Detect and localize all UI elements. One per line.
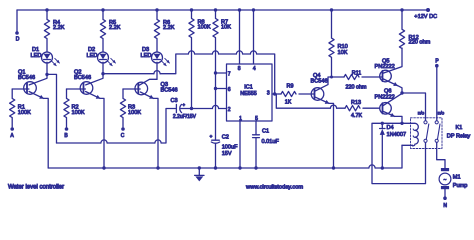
LED D3 (152, 52, 170, 66)
resistor R10 (329, 8, 334, 77)
node pin3 junction (273, 92, 276, 95)
wire Q2 collector to pin3 segment a (103, 73, 154, 75)
wire bus segment b (107, 142, 155, 144)
wire hop over pin4 column (250, 51, 256, 54)
wire hop R13 over Q4 emitter (330, 105, 336, 108)
wire Q6 collector (383, 93, 402, 106)
svg-text:R11: R11 (352, 70, 362, 76)
label C1 (262, 129, 280, 145)
LED D2 (98, 52, 116, 66)
wire Q1 base (12, 88, 29, 90)
wire Q4 emitter (315, 97, 334, 168)
wire Q2 collector to pin3 segment b (160, 54, 188, 74)
wire Q1 emitter (29, 92, 48, 169)
node P (435, 64, 439, 68)
switch contact left (424, 121, 429, 143)
svg-text:LED: LED (141, 53, 152, 59)
svg-text:2: 2 (228, 107, 231, 113)
wire hop over R8 column (188, 51, 194, 54)
node ground D4 (381, 166, 384, 169)
label +12V DC (414, 14, 437, 20)
pin 1 label (239, 116, 242, 122)
wire ground rail b (375, 145, 402, 168)
wire hop over pin8 column (236, 51, 242, 54)
label D2 (87, 47, 98, 59)
wire bus hop over Q2 emitter (101, 140, 107, 143)
resistor R9 (279, 91, 315, 96)
wire Q3 emitter (140, 92, 158, 168)
wire node to relay return (372, 123, 426, 183)
wire +12V top rail (17, 9, 428, 11)
label Q6 (375, 89, 395, 101)
label A (10, 133, 14, 139)
svg-text:2.2K: 2.2K (109, 25, 121, 31)
wire pin6 to C2 (215, 89, 217, 141)
svg-text:2.2K: 2.2K (53, 25, 65, 31)
node C (121, 127, 125, 131)
label R5 value (109, 20, 121, 31)
svg-text:+12V DC: +12V DC (414, 14, 437, 20)
svg-text:LED: LED (87, 53, 98, 59)
wire hop pin2 over R7 column (212, 105, 218, 108)
svg-text:7: 7 (228, 71, 231, 77)
switch contact right (435, 121, 440, 143)
node ground Q4 emitter (332, 166, 335, 169)
svg-text:15V: 15V (222, 151, 232, 157)
wire pin3 to R13 (275, 94, 331, 108)
node B (65, 127, 69, 131)
resistor R13 (337, 106, 379, 111)
pin 4 label (253, 66, 256, 72)
label R8 value (198, 20, 211, 31)
svg-text:D4: D4 (387, 125, 394, 131)
wire pin 4 supply (252, 8, 255, 64)
svg-text:+: + (210, 134, 213, 139)
wire bus segment c (161, 109, 176, 144)
svg-text:100K: 100K (18, 110, 31, 116)
node A (10, 127, 14, 131)
node Q1 collector (45, 73, 48, 76)
label P (435, 58, 439, 64)
svg-text:K1: K1 (456, 125, 463, 131)
label Q3 (161, 82, 178, 94)
label C3 (171, 98, 197, 120)
capacitor C1 (253, 135, 260, 138)
transistor Q4 (311, 88, 324, 101)
node ground symbol junction (198, 166, 201, 169)
node Q5 emitter junction (400, 91, 403, 94)
label K1 (447, 125, 471, 140)
node ground C2 (214, 166, 217, 169)
svg-text:~: ~ (444, 177, 447, 183)
label Q2 (74, 70, 91, 82)
wire collector branch right (47, 74, 57, 143)
svg-text:PN2222: PN2222 (375, 64, 395, 70)
label N (443, 203, 447, 209)
svg-text:4: 4 (253, 66, 256, 72)
transistor Q2 (80, 82, 93, 95)
wire to relay common (402, 93, 426, 121)
wire pin 6 (216, 88, 227, 90)
label D4 (387, 125, 407, 138)
wire Q5 collector (383, 48, 402, 73)
transistor Q5 (380, 70, 392, 82)
op-amp U1 NE555 box (227, 64, 273, 121)
resistor R7 (213, 8, 218, 73)
capacitor C3 (176, 102, 185, 112)
wire hop over D3 column (154, 71, 160, 74)
label M1 (453, 175, 468, 190)
wire Q1 collector (29, 74, 47, 85)
wire R7 to pin6 (215, 73, 217, 89)
svg-text:1N4007: 1N4007 (387, 132, 407, 138)
wire Q2 collector to pin3 segment f (257, 54, 275, 94)
wire pin 1 ground (239, 121, 241, 168)
wire motor to N (444, 189, 446, 197)
svg-text:100K: 100K (198, 25, 211, 31)
wire pin 7 (216, 72, 227, 74)
svg-text:www.circuitstoday.com: www.circuitstoday.com (245, 184, 303, 190)
node R8 junction (190, 107, 193, 110)
svg-text:2.2K: 2.2K (163, 25, 175, 31)
node Q6 emitter junction (400, 122, 403, 125)
diode D4 (380, 123, 385, 168)
svg-text:C: C (121, 133, 125, 139)
svg-text:4.7K: 4.7K (351, 113, 362, 119)
wire bus segment a (57, 142, 101, 144)
LED D1 (42, 52, 60, 66)
wire C1 to ground (255, 138, 257, 168)
label R12 value (409, 35, 431, 46)
wire coil top (402, 122, 415, 124)
resistor R11 (332, 74, 382, 79)
label D (16, 37, 20, 43)
resistor R12 (399, 8, 404, 48)
wire D2 cathode (102, 62, 104, 73)
resistor R2 (64, 89, 69, 127)
label R1 value (18, 104, 31, 116)
wire Q2 collector (86, 74, 103, 85)
label D3 (141, 47, 152, 59)
svg-text:2.2uF/15V: 2.2uF/15V (173, 114, 197, 120)
svg-text:BC546: BC546 (311, 79, 328, 85)
label D1 (31, 47, 42, 59)
wire Q4 collector (315, 77, 332, 91)
label R11 value (346, 70, 367, 90)
label Q5 (375, 59, 395, 71)
pin 8 label (238, 66, 241, 72)
label title (8, 184, 64, 190)
svg-text:BC546: BC546 (18, 75, 35, 81)
svg-text:n/o: n/o (438, 110, 445, 115)
svg-text:D: D (16, 37, 20, 43)
label R7 value (221, 20, 231, 31)
pin 6 label (228, 87, 231, 93)
resistor R8 (189, 8, 194, 108)
node D (15, 31, 19, 35)
wire coil bottom (402, 144, 413, 146)
wire Q6 emitter (383, 111, 402, 123)
svg-text:10K: 10K (338, 50, 348, 56)
wire C3 to pin2 c (219, 108, 227, 110)
svg-text:BC546: BC546 (74, 75, 91, 81)
label C2 (222, 135, 238, 157)
label R6 value (163, 20, 175, 31)
node ground stage2 (102, 166, 105, 169)
svg-text:3: 3 (267, 91, 270, 97)
capacitor C2 (210, 134, 220, 143)
svg-text:R9: R9 (287, 84, 294, 90)
motor M1 (439, 168, 451, 189)
transistor Q1 (24, 82, 37, 95)
svg-text:Pump: Pump (453, 183, 468, 189)
svg-text:100uF: 100uF (222, 145, 238, 151)
label Q1 (18, 70, 35, 82)
svg-text:1K: 1K (285, 99, 292, 105)
svg-text:N: N (443, 203, 447, 209)
wire Q3 collector (139, 79, 157, 85)
svg-text:M1: M1 (453, 175, 461, 181)
wire P to contact (436, 66, 438, 121)
ground symbol (195, 168, 204, 181)
label website (245, 184, 303, 190)
wire Q2 collector to pin3 segment e (243, 53, 251, 55)
wire probe D drop (16, 10, 18, 33)
node Q2 collector (101, 72, 104, 75)
svg-text:IC1: IC1 (244, 84, 252, 90)
svg-text:0.01uF: 0.01uF (262, 139, 280, 145)
node pin6 junction (214, 87, 217, 90)
node pin7 junction (214, 71, 217, 74)
label R9 value (285, 84, 294, 106)
pin 3 label (267, 91, 270, 97)
relay K1 box (411, 118, 443, 149)
svg-text:8: 8 (238, 66, 241, 72)
label R13 value (351, 100, 362, 119)
transistor Q6 (380, 103, 392, 115)
svg-text:DP Relay: DP Relay (447, 134, 471, 140)
svg-text:C2: C2 (222, 135, 229, 141)
wire node to D4 (382, 122, 402, 124)
resistor R3 (120, 89, 125, 127)
wire D1 cathode (46, 62, 48, 74)
node N (443, 196, 447, 200)
wire pin 5 to C1 (255, 121, 257, 135)
wire C2 to ground (215, 143, 217, 168)
wire pin 8 supply (238, 8, 241, 64)
label Q4 (311, 73, 328, 84)
wire contact to motor (437, 142, 445, 168)
svg-text:BC546: BC546 (161, 88, 178, 94)
label B (64, 133, 68, 139)
wire Q3 base (123, 88, 140, 90)
svg-text:100K: 100K (72, 110, 85, 116)
svg-text:C1: C1 (262, 129, 269, 135)
label R4 value (53, 20, 65, 31)
svg-text:NE555: NE555 (240, 91, 256, 97)
wire Q2 collector to pin3 segment d (219, 53, 237, 55)
wire Q2 base (67, 88, 86, 90)
label n/o right (438, 110, 445, 115)
wire bus hop over Q3 emitter (155, 140, 161, 143)
pin 2 label (228, 107, 231, 113)
inductor K1 coil (413, 123, 419, 145)
label n/o left (418, 110, 425, 115)
label R3 value (128, 104, 141, 116)
node R10 junction (330, 76, 333, 79)
resistor R5 (100, 8, 105, 52)
node D4 anode junction (381, 122, 384, 125)
wire ground rail hop (369, 165, 375, 168)
label R2 value (72, 104, 85, 116)
node ground C1 (254, 166, 257, 169)
svg-text:C3: C3 (171, 98, 178, 104)
svg-text:6: 6 (228, 87, 231, 93)
node ground stage3 (156, 166, 159, 169)
wire Q2 collector to pin3 segment c (195, 53, 213, 55)
resistor R4 (44, 8, 49, 52)
label R10 value (338, 44, 348, 56)
pin 5 label (255, 116, 258, 122)
svg-text:n/o: n/o (418, 110, 425, 115)
svg-text:+: + (183, 102, 186, 107)
transistor Q3 (135, 82, 148, 95)
svg-text:R13: R13 (351, 100, 361, 106)
svg-text:100K: 100K (128, 110, 141, 116)
resistor R1 (10, 89, 15, 127)
svg-text:D3: D3 (142, 47, 149, 53)
wire C3 to pin2 a (181, 108, 192, 110)
wire pin 3 (272, 93, 279, 95)
svg-text:LED: LED (31, 53, 42, 59)
svg-text:220 ohm: 220 ohm (409, 40, 431, 46)
wire Q5 emitter (383, 79, 402, 93)
wire Q2 emitter (86, 92, 104, 169)
svg-text:10K: 10K (221, 25, 231, 31)
resistor R6 (154, 8, 159, 52)
wire D3 cathode (156, 62, 158, 79)
wire ground rail a (48, 167, 369, 169)
label IC1 NE555 (240, 84, 256, 97)
node ground pin1 (238, 166, 241, 169)
wire C3 to pin2 b (192, 108, 213, 110)
wire hop over R7 column (212, 51, 218, 54)
svg-text:D2: D2 (88, 47, 95, 53)
label C (121, 133, 125, 139)
svg-text:D1: D1 (32, 47, 39, 53)
node +12V rail end (426, 8, 430, 12)
svg-text:220 ohm: 220 ohm (346, 84, 367, 90)
svg-text:Water level controller: Water level controller (8, 184, 64, 190)
pin 7 label (228, 71, 231, 77)
